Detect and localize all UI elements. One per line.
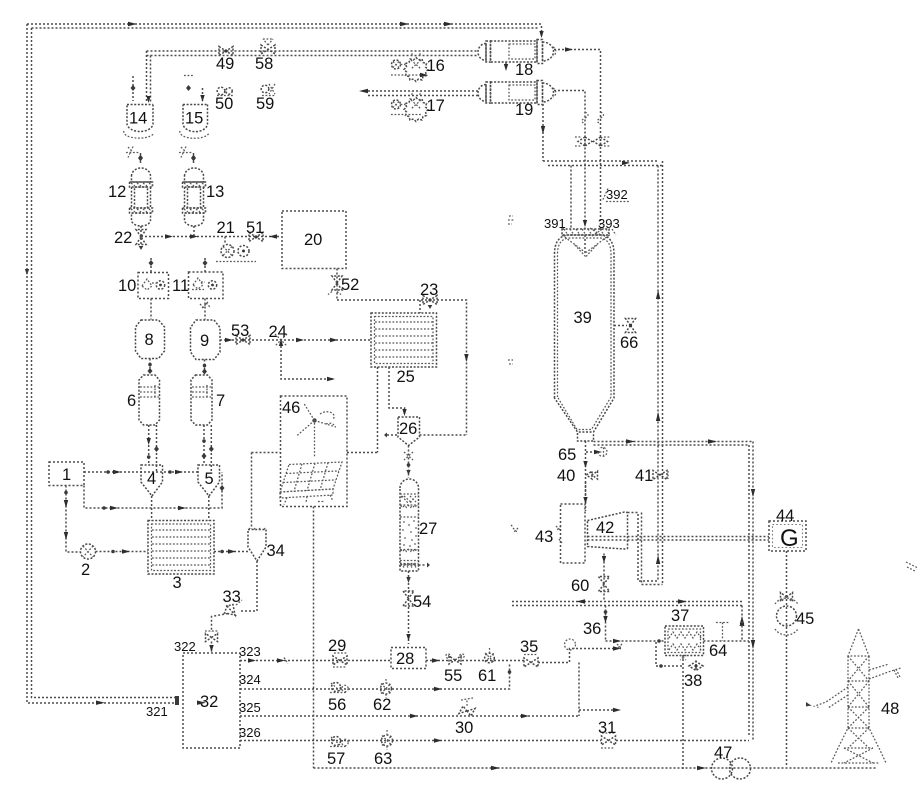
turbine 42: [588, 512, 628, 549]
wire 20 to valve 52 to header: [336, 269, 338, 301]
svg-text:391: 391: [544, 216, 566, 231]
svg-text:39: 39: [574, 309, 592, 327]
wire 35 out up to HX37 line: [538, 639, 622, 663]
svg-text:30: 30: [455, 719, 473, 737]
svg-text:61: 61: [478, 667, 496, 685]
wire 9 to vessel 7: [202, 360, 207, 375]
svg-text:25: 25: [397, 368, 415, 386]
svg-text:28: 28: [396, 650, 414, 668]
valve 62: [373, 679, 392, 714]
svg-text:56: 56: [328, 696, 346, 714]
svg-text:1: 1: [62, 466, 71, 484]
pump 50: [217, 87, 233, 95]
svg-text:38: 38: [684, 672, 702, 690]
vessel 6: [127, 375, 160, 425]
compressor 10 (dashed box): [118, 273, 169, 299]
box 32: [146, 653, 240, 748]
svg-text:324: 324: [239, 672, 261, 687]
vessel 8: [136, 320, 165, 359]
svg-text:10: 10: [118, 277, 136, 295]
svg-text:54: 54: [413, 593, 431, 611]
wire pump 2 to HX 3: [96, 549, 149, 553]
valve 40: [557, 467, 598, 485]
wire 1 to pump 2: [64, 486, 80, 553]
svg-text:14: 14: [129, 110, 147, 128]
valve 58: [261, 39, 275, 54]
svg-text:3: 3: [173, 574, 182, 592]
wire 324: [239, 663, 511, 692]
svg-text:17: 17: [427, 97, 445, 115]
svg-text:16: 16: [427, 57, 445, 75]
svg-text:50: 50: [215, 95, 233, 113]
pump 59: [261, 84, 276, 96]
heat exchanger 3: [148, 521, 214, 593]
wire feed down into vessel 14: [146, 51, 150, 103]
generator 44: [769, 507, 806, 552]
svg-text:2: 2: [81, 561, 90, 579]
svg-text:G: G: [780, 525, 799, 552]
wire 11 to vessel 9: [204, 299, 206, 320]
svg-text:49: 49: [216, 55, 234, 73]
svg-text:63: 63: [374, 750, 392, 768]
valve 55: [444, 654, 464, 685]
wire into HX37 y641: [606, 639, 666, 643]
hopper 5: [198, 465, 220, 496]
column 27: [400, 479, 437, 571]
svg-text:57: 57: [327, 750, 345, 768]
solar panel in 46: [280, 462, 342, 505]
svg-text:46: 46: [282, 399, 300, 417]
wire 25 bottom to hopper 26: [389, 367, 407, 416]
svg-text:12: 12: [108, 183, 126, 201]
svg-text:41: 41: [635, 467, 653, 485]
svg-text:322: 322: [174, 639, 196, 654]
stray mark x510: [508, 216, 514, 224]
wire 8 to vessel 6: [148, 359, 153, 375]
heat exchanger 37: [665, 607, 704, 656]
svg-text:59: 59: [256, 95, 274, 113]
wire outer border left (double): [25, 24, 206, 705]
svg-text:18: 18: [515, 61, 533, 79]
svg-text:52: 52: [341, 276, 359, 294]
wire HX19 out to drop x585: [554, 91, 585, 230]
svg-text:6: 6: [127, 392, 136, 410]
valve 23: [420, 281, 438, 309]
svg-text:323: 323: [239, 644, 261, 659]
pump 38: [684, 662, 703, 691]
reactor 39 shell: [555, 235, 615, 432]
wire turbine down through valve 60: [602, 554, 606, 602]
svg-text:42: 42: [596, 519, 614, 537]
svg-text:8: 8: [145, 331, 154, 349]
wire 9 to 24 to HX 25: [220, 338, 371, 342]
valve 322: [174, 631, 218, 654]
box 46 (renewables, dashed): [281, 396, 348, 507]
wire 6 to hopper 4: [147, 425, 160, 472]
wire HX 3 to 34: [214, 549, 248, 553]
heat exchanger 18: [478, 40, 556, 80]
wind turbine in 46: [297, 404, 337, 459]
svg-text:58: 58: [255, 55, 273, 73]
labels 49 50 58 59: [215, 55, 274, 113]
instrument 65: [558, 446, 607, 464]
svg-text:21: 21: [217, 219, 235, 237]
svg-text:7: 7: [216, 392, 225, 410]
pump 57: [327, 737, 348, 769]
hopper 34: [248, 527, 285, 562]
hand valve above column 13: [179, 147, 196, 166]
svg-text:44: 44: [776, 507, 794, 525]
svg-text:62: 62: [373, 696, 391, 714]
svg-text:51: 51: [246, 219, 264, 237]
svg-text:24: 24: [269, 323, 287, 341]
svg-text:325: 325: [239, 700, 261, 715]
svg-text:43: 43: [535, 528, 553, 546]
svg-text:22: 22: [114, 229, 132, 247]
stray mark right edge: [906, 562, 918, 571]
valve 22: [114, 226, 146, 250]
wire 46 to bottom power line: [313, 507, 315, 769]
vessel 15: [180, 105, 209, 139]
svg-text:47: 47: [714, 744, 732, 762]
valve 60: [571, 577, 610, 596]
pump 16: [391, 51, 445, 82]
svg-text:392: 392: [606, 187, 628, 202]
wire 27 to valve 54: [406, 571, 410, 644]
wire 28 out to valve 35: [426, 658, 524, 662]
wire HX37 out to x753: [704, 640, 750, 642]
heat exchanger 19: [478, 81, 556, 120]
box 1: [49, 462, 84, 486]
wire stub into 14: [131, 76, 136, 101]
svg-text:66: 66: [620, 334, 638, 352]
wire 1 to hopper 4 and 5: [84, 470, 198, 474]
wire across 46 (y452): [252, 452, 378, 454]
valve on drop x600: [594, 137, 612, 146]
svg-text:36: 36: [583, 620, 601, 638]
wire HX37 bottom loop and pump 38: [656, 642, 686, 769]
svg-text:321: 321: [146, 704, 168, 719]
wire drop x753 (double): [749, 442, 755, 741]
wire header y300 to riser x466: [337, 300, 469, 435]
wire stub into 11: [203, 258, 208, 272]
wire 7 to hopper 5: [202, 425, 214, 472]
column 13: [183, 168, 225, 226]
svg-text:26: 26: [399, 420, 417, 438]
valve 63: [374, 730, 393, 768]
pump 2: [81, 544, 96, 579]
hopper 26: [398, 417, 420, 446]
valve 52: [328, 276, 359, 295]
column 12: [108, 168, 153, 226]
svg-text:45: 45: [796, 610, 814, 628]
svg-text:326: 326: [239, 725, 261, 740]
transmission tower 48: [806, 629, 901, 763]
svg-text:15: 15: [185, 110, 203, 128]
wire 23 into HX 25 top: [419, 300, 421, 313]
wire 34 to valve 33: [240, 561, 257, 611]
reactor outlet: [578, 433, 594, 441]
box 20: [282, 211, 346, 269]
svg-text:19: 19: [515, 101, 533, 119]
valve 33: [223, 588, 243, 615]
transformer 47: [712, 744, 751, 779]
wire feed to HX19 (double): [359, 89, 478, 96]
valve 54: [403, 591, 431, 611]
wire turbine to generator y537 (double): [588, 537, 770, 541]
hopper 4: [141, 465, 163, 496]
wire hoppers to HX 3: [152, 496, 209, 521]
wire 325: [239, 700, 579, 718]
svg-text:40: 40: [557, 467, 575, 485]
valve 35: [520, 638, 538, 667]
wire HX18 out to drop x600: [554, 47, 601, 229]
pump 21: [216, 219, 256, 262]
break symbols on feed drops: [582, 112, 604, 124]
wire 26 right to riser: [384, 433, 467, 438]
wire columns to pump 21 and box 20: [141, 226, 281, 239]
svg-text:13: 13: [206, 183, 224, 201]
svg-text:4: 4: [147, 470, 156, 488]
svg-text:53: 53: [231, 322, 249, 340]
wire HX19 bottom to header: [541, 104, 545, 161]
wire from line 46-area down into 34: [251, 453, 253, 530]
compressor 11 (dashed box): [172, 272, 223, 308]
svg-text:29: 29: [328, 637, 346, 655]
wire 24 down and right: [281, 346, 335, 381]
svg-text:9: 9: [200, 332, 209, 350]
wire reactor bottom to valve 40: [583, 441, 587, 505]
svg-text:27: 27: [419, 520, 437, 538]
hand valve above column 12: [126, 147, 143, 166]
wire bottom power line: [314, 766, 878, 770]
dashed box 43: [535, 504, 585, 563]
wire 40 to turbine 42: [583, 482, 587, 511]
wire stub into 10: [149, 258, 154, 272]
wire 10 to vessel 8: [150, 299, 152, 320]
svg-text:60: 60: [571, 577, 589, 595]
wire recycle header y163 (double): [543, 161, 663, 166]
reactor distributor 391/392/393: [544, 187, 629, 257]
vessel 14: [124, 105, 154, 139]
expander 45: [775, 593, 814, 636]
wire header drop to reactor x571: [570, 166, 572, 230]
instrument T 64: [709, 618, 745, 660]
svg-text:33: 33: [223, 588, 241, 606]
node 24: [269, 323, 288, 346]
pump 56: [328, 683, 348, 715]
wire 33 to valve 322: [212, 614, 229, 633]
wire 26 to column 27: [404, 446, 413, 479]
wire turbine line y603 (double): [512, 599, 742, 605]
svg-text:5: 5: [205, 470, 214, 488]
heat exchanger 25: [371, 313, 437, 386]
wire connector x742: [740, 606, 744, 642]
wire recycle riser x660 (double): [656, 161, 663, 585]
valve 31: [598, 719, 616, 748]
wire top border (double): [27, 22, 544, 38]
vessel 7: [191, 375, 225, 425]
valve 49: [219, 47, 233, 56]
svg-text:31: 31: [598, 719, 616, 737]
wire header to HX18 (double): [147, 51, 479, 56]
svg-text:55: 55: [444, 667, 462, 685]
valve 41: [635, 467, 668, 485]
wire bypass below hoppers: [84, 472, 225, 510]
pump 17: [391, 91, 445, 122]
wire reactor bottom product line y441 (double) to x753: [594, 439, 754, 445]
wire 36 drop: [583, 606, 608, 642]
wire 27 side stub: [419, 563, 431, 568]
svg-text:393: 393: [598, 216, 620, 231]
wire riser x579 down to line 325: [579, 663, 621, 717]
svg-text:20: 20: [304, 231, 322, 249]
wire G down to 45: [786, 551, 788, 767]
valve 29: [328, 637, 347, 667]
valve on drop x585: [575, 137, 592, 146]
valve 51: [246, 219, 264, 242]
valve 53: [231, 322, 250, 345]
svg-text:35: 35: [520, 638, 538, 656]
svg-text:64: 64: [709, 642, 727, 660]
svg-text:34: 34: [267, 542, 285, 560]
svg-text:65: 65: [558, 446, 576, 464]
svg-text:23: 23: [420, 281, 438, 299]
svg-text:32: 32: [200, 693, 218, 711]
svg-text:48: 48: [881, 700, 899, 718]
vessel 9: [191, 320, 221, 360]
wire 326: [239, 725, 749, 743]
valve 66: [614, 319, 638, 353]
valve 30: [455, 698, 475, 737]
stray mark near 43: [511, 525, 518, 533]
wire turbine exhaust to riser (double): [628, 513, 663, 585]
valve 61: [478, 648, 496, 685]
wire 323: [239, 644, 391, 664]
wire stubs into 15: [184, 76, 205, 103]
wire 25 bottom left drop: [377, 367, 379, 453]
svg-text:37: 37: [671, 607, 689, 625]
box 28: [391, 648, 426, 669]
svg-text:11: 11: [172, 277, 189, 295]
